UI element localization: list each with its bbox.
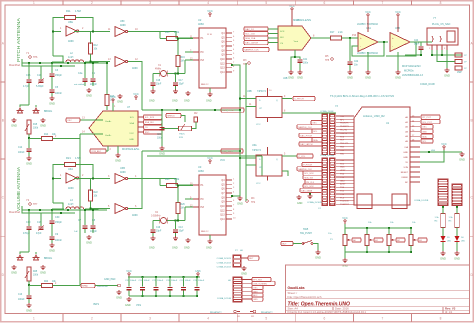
svg-text:GND: GND — [440, 256, 446, 260]
svg-text:PLUG_3.5_SAO: PLUG_3.5_SAO — [432, 23, 450, 26]
svg-text:GND: GND — [206, 100, 212, 103]
svg-text:R21: R21 — [66, 156, 71, 160]
svg-text:PB5/T1: PB5/T1 — [340, 133, 348, 135]
svg-text:4060: 4060 — [198, 22, 204, 26]
svg-text:100nF: 100nF — [198, 280, 205, 282]
svg-text:4: 4 — [207, 1, 209, 5]
svg-text:6: 6 — [323, 316, 325, 320]
svg-text:R25: R25 — [33, 271, 38, 273]
svg-text:IOREF: IOREF — [401, 177, 408, 179]
svg-text:GND: GND — [403, 157, 408, 159]
svg-text:C4a: C4a — [78, 72, 83, 75]
svg-text:1uF: 1uF — [74, 231, 78, 233]
svg-text:TS (1)431 BCV-U-Shunt-Reg 2.49: TS (1)431 BCV-U-Shunt-Reg 2.495-36V n-CS… — [330, 94, 394, 98]
svg-text:C15: C15 — [26, 74, 31, 77]
svg-text:GND: GND — [11, 270, 17, 274]
svg-text:470k: 470k — [174, 31, 180, 34]
svg-text:4060: 4060 — [198, 169, 204, 173]
svg-text:Q14: Q14 — [220, 219, 225, 221]
svg-text:100nF: 100nF — [55, 92, 62, 95]
svg-text:GND: GND — [184, 247, 190, 250]
svg-text:PIT_POT: PIT_POT — [422, 117, 431, 119]
svg-text:not stuffed: not stuffed — [74, 83, 85, 86]
svg-text:SMD: SMD — [340, 167, 345, 169]
svg-text:COMA_DC4XB: COMA_DC4XB — [307, 201, 323, 204]
svg-text:1mH: 1mH — [68, 56, 73, 59]
svg-text:GND: GND — [11, 123, 17, 127]
svg-text:NC: NC — [405, 182, 409, 184]
svg-text:IVA: IVA — [405, 146, 409, 149]
svg-text:GND: GND — [237, 201, 243, 205]
svg-text:R26: R26 — [181, 204, 186, 206]
svg-text:CS: CS — [280, 43, 284, 45]
svg-text:BUT: BUT — [282, 244, 287, 246]
svg-text:PB1/NP1: PB1/NP1 — [340, 123, 349, 125]
svg-text:GND: GND — [26, 308, 32, 312]
svg-text:8: 8 — [440, 1, 442, 5]
svg-text:R15: R15 — [33, 124, 38, 126]
svg-text:SDO: SDO — [145, 132, 150, 134]
svg-text:R23: R23 — [165, 178, 170, 181]
svg-text:GND: GND — [40, 123, 46, 127]
svg-text:GND: GND — [172, 100, 178, 103]
svg-text:VCC: VCC — [256, 124, 261, 126]
svg-text:Q: Q — [276, 100, 278, 102]
svg-text:BB910L: BB910L — [44, 111, 53, 113]
svg-text:4069: 4069 — [68, 187, 74, 190]
svg-text:Q10: Q10 — [220, 206, 225, 208]
svg-text:150pF: 150pF — [55, 221, 62, 224]
svg-text:+: + — [392, 36, 394, 40]
svg-text:C30: C30 — [55, 216, 60, 219]
svg-text:GND: GND — [184, 100, 190, 103]
svg-text:VCC: VCC — [220, 159, 225, 162]
svg-text:C22: C22 — [354, 61, 359, 63]
svg-text:MCP 6402-E/SN: MCP 6402-E/SN — [402, 65, 421, 68]
svg-text:VCC: VCC — [110, 95, 116, 99]
svg-text:56pF: 56pF — [414, 44, 420, 46]
svg-text:SCL_SCK: SCL_SCK — [145, 117, 155, 119]
svg-text:DAC_PITCH: DAC_PITCH — [300, 135, 312, 138]
svg-text:C_PITCH: C_PITCH — [294, 99, 304, 101]
svg-text:BB910L: BB910L — [44, 258, 53, 260]
svg-text:TP6: TP6 — [33, 56, 38, 59]
svg-text:VCC: VCC — [129, 133, 134, 135]
svg-text:100nF: 100nF — [18, 299, 25, 301]
svg-text:C17: C17 — [179, 80, 184, 82]
svg-text:VOL_POT: VOL_POT — [422, 122, 432, 124]
svg-text:U3B: U3B — [120, 167, 125, 170]
svg-text:MountPad: MountPad — [9, 64, 21, 67]
svg-text:SAMPLE_CLK: SAMPLE_CLK — [298, 126, 312, 129]
svg-text:P_PITCH: P_PITCH — [303, 165, 312, 167]
svg-text:Rev: V3: Rev: V3 — [445, 307, 456, 311]
svg-text:C21: C21 — [303, 59, 308, 61]
svg-text:Y2: Y2 — [26, 198, 30, 202]
svg-text:Date: 2016: Date: 2016 — [335, 307, 349, 311]
svg-text:P16: P16 — [352, 35, 357, 37]
svg-text:DAC_D1: DAC_D1 — [245, 28, 254, 31]
svg-text:COMA_DC4XB: COMA_DC4XB — [414, 199, 429, 202]
svg-text:100nF: 100nF — [18, 152, 25, 154]
svg-text:GaudiLabs: GaudiLabs — [288, 286, 305, 290]
svg-text:SDA_1DA: SDA_1DA — [245, 37, 256, 40]
svg-text:4069: 4069 — [132, 67, 138, 70]
svg-text:C10: C10 — [26, 221, 31, 224]
svg-text:VSS: VSS — [136, 304, 141, 307]
svg-text:GND_PAD: GND_PAD — [104, 278, 116, 281]
svg-text:PDx/T0: PDx/T0 — [340, 130, 348, 132]
svg-text:VCC: VCC — [365, 10, 371, 14]
svg-text:C13: C13 — [18, 294, 23, 296]
svg-text:SCL_SCK: SCL_SCK — [304, 186, 314, 188]
svg-text:SCK: SCK — [280, 31, 285, 33]
svg-text:B: B — [2, 119, 4, 123]
svg-text:1mH: 1mH — [68, 203, 73, 206]
svg-text:COMA_DU08: COMA_DU08 — [420, 83, 435, 86]
svg-text:GND: GND — [49, 248, 55, 252]
svg-text:TP2: TP2 — [251, 202, 256, 204]
svg-text:VouB+: VouB+ — [105, 135, 112, 137]
svg-text:GND: GND — [125, 304, 131, 307]
svg-text:Q10: Q10 — [220, 59, 225, 61]
svg-text:C19: C19 — [156, 227, 161, 229]
svg-text:PC4/SCK: PC4/SCK — [340, 201, 350, 203]
svg-text:Q12: Q12 — [220, 63, 225, 65]
svg-text:OSC: OSC — [422, 127, 427, 129]
svg-text:GND: GND — [288, 75, 294, 79]
svg-text:GND: GND — [26, 161, 32, 165]
svg-text:5-65pF: 5-65pF — [36, 85, 44, 88]
svg-text:R24: R24 — [44, 281, 49, 283]
svg-text:PB_CLK: PB_CLK — [306, 182, 315, 184]
svg-text:VCC: VCC — [126, 269, 132, 273]
svg-text:R19: R19 — [181, 57, 186, 59]
svg-text:100nF: 100nF — [157, 280, 164, 282]
svg-text:GND: GND — [86, 240, 92, 244]
svg-text:7: 7 — [382, 316, 384, 320]
svg-text:GND: GND — [49, 101, 55, 105]
svg-text:VouA+: VouA+ — [105, 120, 112, 123]
svg-text:P2/: P2/ — [201, 206, 205, 209]
svg-text:100nF: 100nF — [55, 239, 62, 242]
svg-text:U6B: U6B — [247, 90, 252, 93]
svg-text:Q13: Q13 — [220, 215, 225, 217]
svg-text:33pF: 33pF — [179, 231, 185, 233]
svg-text:GND: GND — [149, 100, 155, 103]
svg-text:COMA_DU08: COMA_DU08 — [320, 110, 334, 113]
svg-text:COMA_DC16B: COMA_DC16B — [217, 297, 232, 300]
svg-text:1.5M: 1.5M — [75, 9, 81, 13]
svg-text:4: 4 — [207, 316, 209, 320]
svg-text:U8A: U8A — [366, 27, 371, 30]
svg-text:GND: GND — [297, 75, 303, 79]
svg-text:BUT: BUT — [249, 258, 254, 260]
svg-text:100k: 100k — [33, 128, 39, 130]
svg-text:220pF: 220pF — [90, 83, 97, 86]
svg-text:5: 5 — [265, 316, 267, 320]
svg-text:SW5: SW5 — [303, 228, 309, 231]
svg-text:COMA_DU08B: COMA_DU08B — [320, 154, 335, 157]
svg-text:150pF: 150pF — [55, 74, 62, 77]
svg-text:47pF: 47pF — [36, 232, 42, 235]
svg-text:P2/: P2/ — [201, 59, 205, 62]
svg-text:CP: CP — [259, 167, 263, 169]
svg-text:SDA: SDA — [422, 135, 427, 138]
svg-text:SAMPLE_CLK: SAMPLE_CLK — [298, 168, 312, 171]
svg-text:GND: GND — [315, 255, 321, 259]
svg-text:33pF: 33pF — [156, 231, 162, 233]
svg-text:U6A: U6A — [252, 144, 257, 147]
svg-text:B: B — [471, 119, 473, 123]
svg-text:JMP: JMP — [457, 71, 462, 74]
svg-text:MCP3422-E/SL: MCP3422-E/SL — [122, 148, 140, 151]
svg-text:COMA_DC4XX: COMA_DC4XX — [217, 257, 232, 260]
svg-text:VCC: VCC — [207, 9, 213, 13]
svg-text:-: - — [392, 44, 393, 48]
svg-text:2.2k: 2.2k — [338, 31, 343, 34]
svg-text:C14: C14 — [18, 147, 23, 149]
svg-text:C13: C13 — [179, 227, 184, 229]
svg-text:DAC_LATCH: DAC_LATCH — [300, 143, 313, 146]
svg-text:SDA_SDI: SDA_SDI — [304, 177, 313, 180]
svg-text:U2: U2 — [198, 18, 202, 22]
svg-text:C26: C26 — [157, 134, 162, 136]
svg-text:Q12: Q12 — [220, 210, 225, 212]
svg-text:U8B: U8B — [395, 27, 400, 30]
svg-text:HS6: HS6 — [195, 269, 201, 273]
svg-text:GND: GND — [117, 99, 123, 103]
svg-text:6: 6 — [323, 1, 325, 5]
svg-text:4069: 4069 — [120, 24, 126, 27]
svg-text:GND: GND — [403, 152, 408, 154]
svg-text:VCC: VCC — [207, 156, 213, 160]
svg-text:VCC: VCC — [133, 92, 139, 96]
svg-text:SHIELD: SHIELD — [167, 116, 175, 118]
svg-text:Arduino_UNO_R2: Arduino_UNO_R2 — [363, 114, 385, 118]
svg-text:PD3/NP3: PD3/NP3 — [340, 126, 350, 128]
svg-text:Y1: Y1 — [26, 51, 30, 55]
svg-text:COMA_DC4XX: COMA_DC4XX — [217, 262, 232, 265]
svg-text:PITCH ANTENNA: PITCH ANTENNA — [16, 17, 21, 62]
svg-text:SDA_SDI: SDA_SDI — [145, 121, 154, 124]
svg-text:GND: GND — [422, 132, 427, 134]
svg-text:Vout: Vout — [294, 40, 299, 43]
svg-text:4069: 4069 — [68, 40, 74, 43]
svg-text:Size: A4: Size: A4 — [288, 307, 299, 311]
svg-text:VCC: VCC — [342, 216, 348, 220]
svg-text:R17: R17 — [330, 31, 335, 34]
svg-text:74HC74: 74HC74 — [252, 149, 261, 152]
svg-text:U4B: U4B — [283, 78, 288, 80]
svg-text:Q14: Q14 — [220, 72, 225, 74]
svg-text:C_VOL: C_VOL — [298, 156, 306, 158]
svg-text:2: 2 — [91, 1, 93, 5]
svg-text:GND: GND — [149, 247, 155, 250]
svg-text:R13: R13 — [165, 31, 170, 34]
svg-text:GND: GND — [459, 157, 465, 161]
svg-text:GND: GND — [253, 299, 258, 301]
svg-text:KiCad E.D.A. kicad 4.1.0-alph: KiCad E.D.A. kicad 4.1.0-alpha+201607199… — [288, 310, 367, 314]
svg-text:MPAD: MPAD — [82, 285, 88, 288]
svg-text:UREF: UREF — [340, 170, 346, 172]
svg-text:VCC: VCC — [256, 183, 261, 185]
svg-text:0.92MHz: 0.92MHz — [151, 215, 161, 218]
svg-text:33pF: 33pF — [156, 84, 162, 86]
svg-text:MCP4921-E/SN: MCP4921-E/SN — [293, 19, 311, 22]
svg-text:LMV358IDGKR-13: LMV358IDGKR-13 — [402, 74, 423, 77]
svg-text:VOLUME ANTENNA: VOLUME ANTENNA — [16, 166, 21, 211]
svg-text:LED: LED — [447, 241, 452, 243]
svg-text:GND: GND — [86, 93, 92, 97]
svg-text:SAMPLE_CLK: SAMPLE_CLK — [244, 49, 259, 52]
svg-text:GND: GND — [340, 180, 345, 182]
svg-text:100k: 100k — [33, 275, 39, 277]
svg-text:R22: R22 — [94, 192, 99, 194]
svg-text:VOL_VOLT: VOL_VOLT — [222, 151, 233, 153]
svg-text:Q13: Q13 — [220, 68, 225, 70]
svg-text:OSC: OSC — [312, 123, 317, 125]
svg-text:1M: 1M — [181, 208, 184, 210]
svg-text:100nF: 100nF — [185, 280, 192, 282]
svg-text:VCC: VCC — [441, 142, 447, 146]
svg-text:U3: U3 — [198, 165, 202, 169]
svg-text:GND: GND — [40, 270, 46, 274]
svg-text:7: 7 — [382, 1, 384, 5]
svg-text:+: + — [360, 36, 362, 40]
svg-text:3: 3 — [149, 1, 151, 5]
svg-text:OSC_PITCH: OSC_PITCH — [222, 110, 234, 112]
svg-text:3: 3 — [149, 316, 151, 320]
svg-text:LED: LED — [461, 241, 466, 243]
svg-text:ISP1: ISP1 — [93, 302, 100, 306]
svg-text:4MHz: 4MHz — [155, 68, 162, 71]
svg-text:GND: GND — [395, 75, 401, 79]
svg-text:SDA: SDA — [313, 139, 318, 142]
svg-text:4069: 4069 — [120, 171, 126, 174]
svg-text:OSC: OSC — [67, 120, 72, 122]
svg-text:GND: GND — [297, 202, 303, 205]
svg-text:5: 5 — [265, 1, 267, 5]
svg-text:GND: GND — [241, 271, 247, 275]
svg-text:3.3N: 3.3N — [403, 167, 408, 169]
svg-text:470k: 470k — [174, 178, 180, 181]
svg-text:Id: 1/1: Id: 1/1 — [445, 310, 453, 314]
svg-text:U3A: U3A — [68, 168, 73, 171]
svg-text:CP: CP — [259, 108, 263, 110]
svg-text:C24: C24 — [414, 40, 419, 42]
svg-text:100nF: 100nF — [130, 280, 137, 282]
svg-text:100n: 100n — [303, 63, 309, 65]
svg-text:AREF: AREF — [340, 183, 346, 186]
svg-text:PB1 CPL: PB1 CPL — [340, 143, 349, 145]
svg-text:GND: GND — [365, 75, 371, 79]
svg-text:R14: R14 — [44, 134, 49, 136]
svg-text:1: 1 — [33, 1, 35, 5]
svg-text:TM2C: TM2C — [179, 134, 185, 136]
svg-text:33pF: 33pF — [179, 84, 185, 86]
svg-text:TP5: TP5 — [325, 60, 330, 62]
svg-text:SW_PUSH: SW_PUSH — [300, 232, 312, 235]
svg-text:DAC_DATA: DAC_DATA — [301, 189, 312, 192]
svg-text:MountPad: MountPad — [9, 211, 21, 214]
svg-text:100nF: 100nF — [171, 280, 178, 282]
svg-text:GND: GND — [454, 256, 460, 260]
svg-text:GND: GND — [206, 247, 212, 250]
svg-text:100pF: 100pF — [90, 230, 97, 233]
svg-text:SDI: SDI — [280, 37, 284, 39]
svg-text:GND: GND — [172, 247, 178, 250]
svg-text:DAC_LATCH: DAC_LATCH — [245, 42, 258, 45]
svg-text:COM_ADC: COM_ADC — [91, 150, 102, 153]
svg-text:4069: 4069 — [132, 214, 138, 217]
svg-text:1M: 1M — [181, 61, 184, 63]
svg-text:MCP60x: MCP60x — [404, 70, 414, 73]
svg-text:8: 8 — [440, 316, 442, 320]
svg-text:C18: C18 — [156, 80, 161, 82]
svg-text:File: OpenThereminCC.sch: File: OpenThereminCC.sch — [288, 295, 322, 299]
svg-text:RESET: RESET — [401, 172, 409, 174]
svg-text:SDA: SDA — [130, 122, 135, 125]
svg-text:GND: GND — [444, 73, 450, 77]
svg-text:SCL_1CK: SCL_1CK — [245, 34, 255, 36]
svg-text:-: - — [360, 44, 361, 48]
svg-text:100nF: 100nF — [144, 280, 151, 282]
svg-text:GND: GND — [115, 158, 121, 162]
svg-text:PC6/RST: PC6/RST — [340, 204, 350, 206]
svg-text:TP7: TP7 — [33, 203, 38, 206]
svg-text:COMA_DC4XX: COMA_DC4XX — [217, 266, 232, 269]
svg-text:1: 1 — [33, 316, 35, 320]
svg-text:74HC74: 74HC74 — [257, 90, 266, 93]
svg-text:R11: R11 — [66, 9, 71, 13]
svg-text:R12: R12 — [94, 45, 99, 47]
svg-text:TP3: TP3 — [243, 64, 248, 66]
svg-text:U5F: U5F — [120, 20, 125, 23]
svg-text:GND: GND — [347, 75, 353, 79]
svg-text:GND: GND — [116, 295, 122, 299]
svg-text:SCL_SCK: SCL_SCK — [304, 173, 314, 175]
svg-text:U5E: U5E — [68, 21, 73, 24]
svg-text:Q: Q — [276, 159, 278, 161]
svg-text:GND: GND — [129, 139, 134, 141]
svg-text:GND: GND — [159, 151, 165, 155]
svg-text:VCC: VCC — [395, 10, 401, 14]
svg-text:2: 2 — [91, 316, 93, 320]
